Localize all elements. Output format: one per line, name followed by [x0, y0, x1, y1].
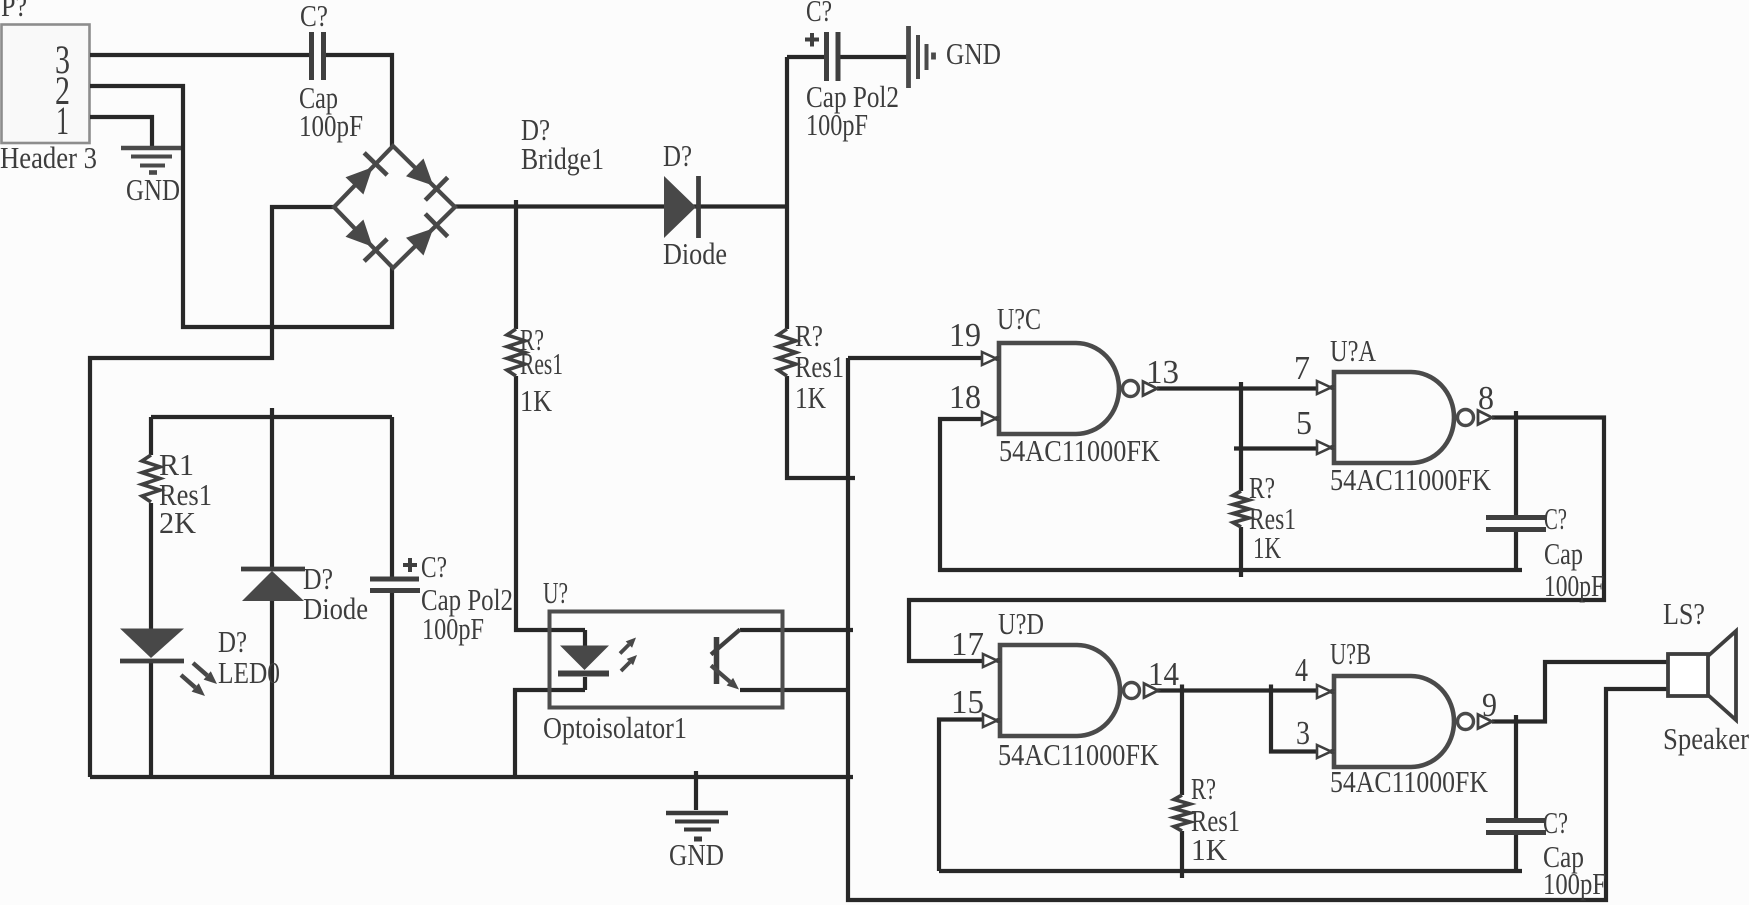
svg-text:D?: D?: [218, 624, 247, 659]
svg-text:Res1: Res1: [795, 349, 844, 384]
svg-text:Diode: Diode: [663, 236, 727, 271]
svg-text:LED0: LED0: [218, 655, 280, 690]
svg-text:1: 1: [56, 98, 69, 143]
svg-text:P?: P?: [1, 0, 27, 23]
svg-text:C?: C?: [300, 0, 328, 33]
svg-text:100pF: 100pF: [806, 107, 868, 142]
svg-text:GND: GND: [946, 36, 1001, 71]
svg-text:54AC11000FK: 54AC11000FK: [998, 737, 1160, 772]
svg-text:1K: 1K: [795, 380, 826, 415]
svg-text:5: 5: [1296, 405, 1312, 442]
svg-text:R?: R?: [1249, 470, 1275, 505]
svg-text:100pF: 100pF: [299, 108, 363, 143]
svg-text:LS?: LS?: [1663, 596, 1705, 631]
svg-text:1K: 1K: [1253, 530, 1281, 565]
svg-text:Optoisolator1: Optoisolator1: [543, 710, 687, 745]
svg-text:Speaker: Speaker: [1663, 721, 1749, 756]
svg-text:R?: R?: [1191, 771, 1216, 806]
svg-text:U?: U?: [543, 575, 568, 610]
svg-text:C?: C?: [1543, 805, 1568, 840]
svg-text:GND: GND: [126, 172, 180, 207]
svg-text:U?A: U?A: [1330, 333, 1376, 368]
svg-text:1K: 1K: [1191, 832, 1228, 867]
svg-text:R?: R?: [795, 318, 823, 353]
svg-text:C?: C?: [1544, 501, 1567, 536]
svg-text:100pF: 100pF: [422, 611, 484, 646]
svg-text:7: 7: [1294, 350, 1310, 387]
svg-text:100pF: 100pF: [1543, 866, 1606, 901]
svg-text:Bridge1: Bridge1: [521, 141, 604, 176]
svg-text:9: 9: [1482, 687, 1497, 724]
svg-text:Diode: Diode: [303, 591, 368, 626]
svg-text:Res1: Res1: [520, 346, 563, 381]
svg-text:GND: GND: [669, 837, 724, 872]
svg-text:54AC11000FK: 54AC11000FK: [999, 433, 1161, 468]
svg-text:54AC11000FK: 54AC11000FK: [1330, 462, 1492, 497]
svg-text:14: 14: [1148, 656, 1179, 693]
svg-text:17: 17: [951, 626, 984, 663]
svg-text:D?: D?: [663, 138, 692, 173]
svg-text:18: 18: [949, 379, 981, 416]
svg-text:100pF: 100pF: [1544, 568, 1604, 603]
svg-text:U?C: U?C: [997, 301, 1041, 336]
svg-text:Header 3: Header 3: [0, 140, 97, 175]
svg-text:1K: 1K: [520, 383, 553, 418]
svg-text:19: 19: [949, 317, 981, 354]
svg-text:C?: C?: [421, 549, 447, 584]
svg-text:U?D: U?D: [998, 606, 1044, 641]
svg-text:Cap: Cap: [1544, 536, 1583, 571]
svg-text:13: 13: [1146, 354, 1179, 391]
svg-text:8: 8: [1478, 380, 1494, 417]
svg-text:15: 15: [951, 684, 984, 721]
svg-text:3: 3: [1296, 715, 1310, 752]
svg-text:C?: C?: [806, 0, 832, 28]
svg-text:4: 4: [1295, 652, 1308, 689]
svg-text:54AC11000FK: 54AC11000FK: [1330, 764, 1489, 799]
svg-text:U?B: U?B: [1330, 636, 1371, 671]
svg-text:2K: 2K: [159, 505, 197, 540]
